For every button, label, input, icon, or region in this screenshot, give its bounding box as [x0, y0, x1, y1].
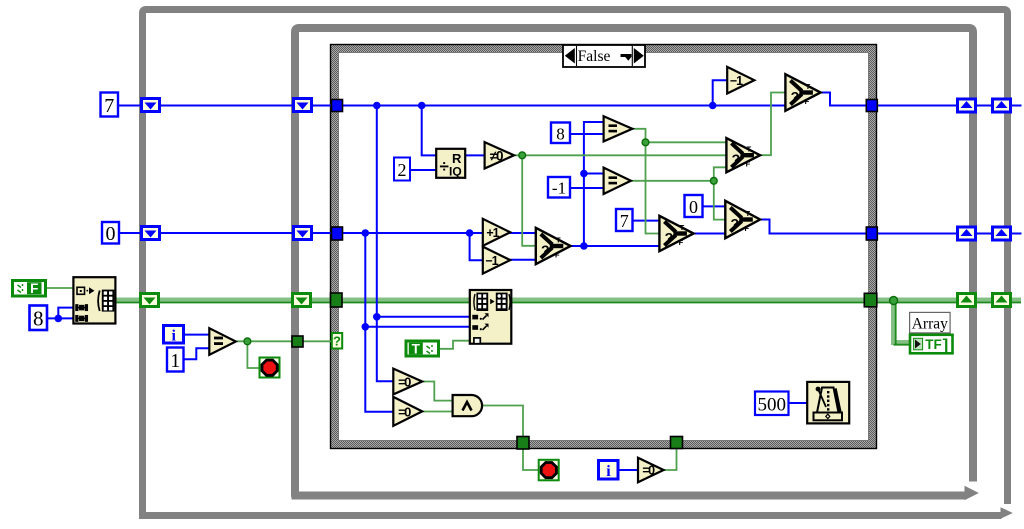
node row2-B — [466, 229, 474, 237]
svg-text:F: F — [745, 224, 750, 233]
function equal -1 — [604, 168, 631, 194]
case selector label False — [563, 45, 645, 67]
wire branch to select1 s — [522, 155, 536, 246]
svg-text:0: 0 — [689, 197, 698, 217]
svg-text:7: 7 — [104, 95, 114, 117]
node vertC-stub — [580, 170, 588, 178]
wire to decrement — [470, 233, 483, 260]
constant T boolean — [406, 341, 439, 356]
terminal stop1 — [260, 358, 280, 378]
wire equal1-out — [633, 129, 646, 143]
wire equal0-2 out to and — [423, 411, 453, 413]
constant F boolean — [13, 281, 46, 297]
svg-text:T: T — [412, 341, 421, 356]
constant 8 left — [30, 306, 48, 331]
wire row1 segments — [119, 105, 142, 107]
wire row2 right segments — [877, 233, 958, 235]
function equal0 A — [393, 369, 422, 395]
wire select-mid out to select-top s — [761, 93, 786, 156]
svg-text:÷: ÷ — [440, 157, 449, 176]
svg-text:?: ? — [333, 334, 341, 349]
wire constant -1 — [570, 187, 603, 189]
tunnel row2 outer-right — [993, 227, 1011, 240]
wire to select3 s — [714, 181, 726, 220]
wire equal0-1 out to and — [423, 382, 453, 401]
wire branch to stop1 — [247, 341, 259, 368]
constant 1 — [167, 348, 184, 373]
wire equal-i out — [236, 340, 292, 342]
wire quotient-out — [466, 154, 485, 156]
function increment +1 — [483, 219, 510, 246]
wire to select2 s — [646, 142, 660, 233]
svg-text:F: F — [679, 238, 684, 247]
node select1-out — [580, 242, 588, 250]
svg-text:T: T — [747, 145, 752, 154]
tunnel case row1-right blue — [866, 100, 877, 112]
wire constant 7-case — [633, 220, 659, 222]
wire tap to replace-fn input1 — [377, 316, 470, 318]
svg-text:2: 2 — [398, 160, 407, 180]
function equal0 C — [638, 458, 664, 483]
tunnel row2 inner-left — [294, 227, 312, 240]
tunnel case row2-right blue — [866, 227, 877, 240]
svg-text:−1: −1 — [730, 74, 743, 88]
wire row2 segments — [119, 232, 141, 234]
tunnel row3 outer-left green — [141, 294, 159, 307]
node equal-i-out — [244, 338, 251, 345]
constant 0 left — [102, 222, 119, 245]
svg-text:T: T — [746, 209, 751, 218]
node const8-split — [55, 315, 63, 323]
svg-text:T: T — [806, 82, 811, 91]
wire constant 0-case — [703, 205, 726, 207]
wire decrement-out to select1 f — [509, 259, 538, 261]
svg-text:F: F — [555, 251, 560, 260]
wire and-out to tunnel — [483, 406, 523, 438]
constant 8 case — [551, 123, 570, 144]
tunnel case row3-right green — [864, 293, 877, 307]
wire equal0-3 out to tunnel — [664, 449, 677, 470]
wire select1-out to select2 — [571, 245, 659, 247]
svg-text:False: False — [578, 48, 611, 65]
tunnel row1 outer-left — [142, 99, 160, 112]
tunnel case row2-left blue — [332, 227, 343, 240]
tunnel case row1-left blue — [332, 100, 343, 112]
function equal 8 — [604, 116, 633, 141]
svg-text:-1: -1 — [552, 179, 566, 198]
svg-text:≠0: ≠0 — [490, 149, 503, 164]
svg-text:0: 0 — [106, 223, 116, 245]
terminal case selector ? — [332, 333, 342, 349]
svg-text:]: ] — [943, 336, 949, 355]
wire vertical to quotient — [422, 106, 436, 156]
tunnel inner-loop boolean green — [292, 336, 303, 347]
node row1-A — [373, 102, 381, 110]
svg-text:?: ? — [732, 151, 741, 167]
node array-split — [890, 297, 898, 305]
function quotient-remainder — [436, 149, 465, 179]
function select 2 — [659, 216, 693, 251]
indicator Array label — [910, 312, 951, 333]
function select 3 — [725, 201, 760, 238]
svg-text:T: T — [680, 223, 685, 232]
svg-text:Array: Array — [912, 316, 948, 333]
wire to select-mid f — [714, 167, 726, 181]
tunnel row3 inner-right green — [958, 294, 976, 307]
wire i1 to equal — [184, 334, 209, 336]
function and-gate — [453, 395, 483, 416]
WIRES-GREEN — [47, 93, 786, 471]
tunnel case row3-left green — [331, 293, 343, 307]
tunnel case bottom-A green — [517, 437, 529, 450]
svg-text:?: ? — [791, 89, 800, 105]
tunnel row1 inner-right — [958, 99, 976, 112]
node row1-B — [418, 102, 426, 110]
wire tunnel to stop2 — [523, 449, 539, 471]
node equal2-out — [710, 177, 717, 184]
svg-text:F: F — [30, 281, 38, 296]
wire constant 1 — [184, 348, 209, 359]
function equal0 B — [393, 397, 422, 426]
while loop inner border — [292, 28, 979, 500]
function decrement -1 — [483, 247, 510, 274]
terminal stop2 — [539, 460, 559, 481]
function equal i=1 — [209, 328, 236, 355]
wire constant 8-out — [47, 308, 73, 319]
function select mid — [726, 138, 760, 172]
wire tap to replace-fn input2 — [365, 326, 470, 328]
indicator Array TF terminal — [910, 335, 953, 355]
tunnel row3 inner-left green — [293, 294, 311, 307]
constant -1 case — [548, 177, 570, 198]
case structure border — [331, 45, 877, 449]
wire i2 to equal0 — [619, 469, 638, 471]
WIRES-BLUE — [47, 80, 1022, 470]
svg-text:=0: =0 — [398, 374, 411, 389]
wire vertical C with stubs — [584, 122, 603, 246]
tunnel row3 outer-right green — [993, 294, 1011, 307]
wire constant 500 — [789, 402, 807, 404]
svg-text:i: i — [606, 463, 611, 480]
wire neq0-out to select-mid s — [515, 154, 727, 156]
function select 1 — [536, 228, 571, 264]
wire to select-mid t — [646, 141, 727, 143]
svg-text:F: F — [746, 160, 751, 169]
tunnel row2 outer-left — [142, 227, 160, 240]
node neq0-out — [519, 152, 526, 159]
svg-text:i: i — [171, 328, 176, 345]
wire T-constant to replace-fn — [439, 341, 470, 349]
wire F-constant to init-fn — [47, 287, 73, 289]
wire increment-out to select1 t — [509, 232, 538, 234]
wire equal2-out — [631, 180, 714, 182]
tunnel row2 inner-right — [958, 227, 976, 240]
svg-text:500: 500 — [758, 395, 787, 416]
svg-text:IQ: IQ — [449, 165, 462, 179]
tunnel row1 outer-right — [993, 99, 1011, 112]
svg-text:?: ? — [665, 230, 674, 246]
node equal1-out — [642, 139, 649, 146]
function negate -1 — [727, 67, 754, 94]
svg-text:T: T — [556, 236, 561, 245]
function select top — [785, 74, 820, 111]
svg-text:=0: =0 — [398, 404, 411, 419]
svg-text:F: F — [805, 97, 810, 106]
node replace-in1 — [373, 313, 381, 321]
constant 0 case — [685, 195, 703, 217]
svg-text:8: 8 — [33, 307, 44, 331]
terminal iteration i2 — [599, 461, 619, 481]
svg-text:TF: TF — [925, 337, 942, 352]
svg-text:1: 1 — [170, 350, 180, 372]
tunnel row1 inner-left — [294, 99, 312, 112]
svg-text:7: 7 — [620, 211, 629, 231]
wire select3-out — [761, 220, 867, 234]
wire up to negate — [713, 80, 728, 105]
constant 7 left — [101, 93, 119, 118]
wire constant 8-case — [570, 133, 603, 135]
node replace-in2 — [362, 323, 370, 331]
function wait-ms-multiple metronome — [807, 382, 849, 424]
svg-text:8: 8 — [556, 125, 565, 144]
terminal iteration i1 — [164, 326, 184, 345]
svg-text:−1: −1 — [485, 254, 498, 268]
svg-text:?: ? — [731, 216, 740, 232]
wire vertical A — [377, 106, 394, 382]
wire constant 2 — [410, 169, 436, 171]
function replace-array-subset — [470, 290, 512, 344]
constant 500 — [755, 392, 789, 416]
function initialize-array — [73, 277, 115, 323]
function not-equal-0 — [485, 142, 514, 168]
node row1-C — [709, 102, 717, 110]
constant 7 case — [616, 209, 633, 231]
wire select2-out to select3 — [694, 233, 725, 235]
wire boolean-array row3 thick — [116, 300, 1021, 345]
wire tunnel to ? terminal — [303, 340, 332, 342]
svg-text:=0: =0 — [642, 464, 655, 478]
constant 2 — [394, 158, 410, 181]
svg-text:?: ? — [541, 242, 550, 258]
tunnel case bottom-B green — [671, 437, 683, 449]
svg-text:+1: +1 — [486, 226, 499, 240]
node row2-A — [362, 229, 370, 237]
wire vertical B — [365, 233, 393, 412]
